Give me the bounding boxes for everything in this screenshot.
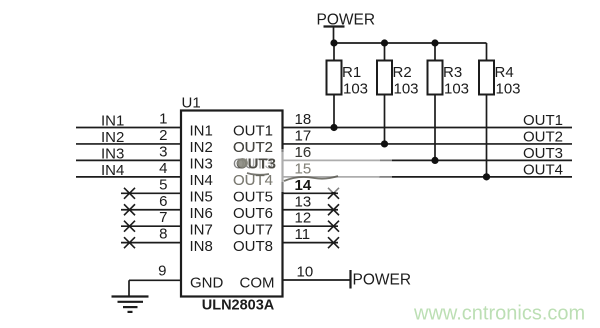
svg-text:OUT6: OUT6 xyxy=(233,205,273,222)
svg-text:R3: R3 xyxy=(443,64,462,81)
svg-text:OUT7: OUT7 xyxy=(233,221,273,238)
svg-text:17: 17 xyxy=(295,127,312,144)
svg-text:ULN2803A: ULN2803A xyxy=(202,298,275,314)
svg-text:7: 7 xyxy=(159,209,167,226)
svg-text:OUT1: OUT1 xyxy=(233,123,273,140)
svg-text:IN5: IN5 xyxy=(190,188,213,205)
svg-text:U1: U1 xyxy=(182,95,201,112)
svg-text:4: 4 xyxy=(159,160,167,177)
svg-text:POWER: POWER xyxy=(317,12,376,29)
svg-text:IN2: IN2 xyxy=(101,129,124,146)
svg-text:COM: COM xyxy=(240,274,275,291)
svg-text:12: 12 xyxy=(295,210,312,227)
svg-text:IN2: IN2 xyxy=(190,139,213,156)
svg-text:IN3: IN3 xyxy=(101,145,124,162)
svg-text:5: 5 xyxy=(159,176,167,193)
svg-text:2: 2 xyxy=(159,127,167,144)
svg-text:IN8: IN8 xyxy=(190,238,213,255)
svg-text:8: 8 xyxy=(159,226,167,243)
svg-text:18: 18 xyxy=(295,111,312,128)
svg-text:OUT1: OUT1 xyxy=(523,112,563,129)
svg-text:IN4: IN4 xyxy=(101,162,124,179)
svg-text:16: 16 xyxy=(295,144,312,161)
svg-text:11: 11 xyxy=(295,226,311,243)
svg-text:IN3: IN3 xyxy=(190,156,213,173)
svg-text:IN6: IN6 xyxy=(190,205,213,222)
svg-text:3: 3 xyxy=(159,143,167,160)
svg-text:OUT8: OUT8 xyxy=(233,238,273,255)
svg-text:6: 6 xyxy=(159,193,167,210)
svg-text:1: 1 xyxy=(159,111,167,128)
svg-text:13: 13 xyxy=(295,193,312,210)
svg-text:POWER: POWER xyxy=(353,272,412,289)
svg-text:OUT2: OUT2 xyxy=(523,128,563,145)
svg-text:9: 9 xyxy=(158,263,166,280)
svg-text:OUT2: OUT2 xyxy=(233,139,273,156)
svg-text:OUT3: OUT3 xyxy=(523,145,563,162)
svg-text:103: 103 xyxy=(394,81,419,98)
svg-text:15: 15 xyxy=(295,160,312,177)
svg-text:IN1: IN1 xyxy=(101,113,124,130)
svg-text:103: 103 xyxy=(496,81,521,98)
svg-text:IN1: IN1 xyxy=(190,123,213,140)
svg-text:R2: R2 xyxy=(393,64,412,81)
svg-text:R4: R4 xyxy=(495,64,514,81)
svg-text:OUT4: OUT4 xyxy=(523,161,563,178)
svg-text:IN4: IN4 xyxy=(190,172,213,189)
svg-text:14: 14 xyxy=(295,177,312,194)
svg-text:GND: GND xyxy=(190,274,224,291)
svg-text:R1: R1 xyxy=(342,64,361,81)
svg-text:www.cntronics.com: www.cntronics.com xyxy=(413,303,585,325)
svg-text:103: 103 xyxy=(444,81,469,98)
svg-text:103: 103 xyxy=(343,81,368,98)
svg-text:IN7: IN7 xyxy=(190,221,213,238)
svg-text:10: 10 xyxy=(297,264,314,281)
